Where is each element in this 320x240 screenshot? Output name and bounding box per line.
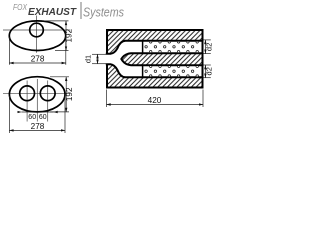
front view B: right hole (40, 86, 55, 101)
front view B: centerline vertical left pipe (26, 81, 28, 122)
dimension 278 (view A) extension lines (8, 37, 10, 65)
front view B: oval shell 278x192 (9, 77, 65, 112)
front view B: centerline vertical middle (36, 79, 38, 122)
svg-text:Systems: Systems (83, 4, 124, 19)
svg-text:278: 278 (31, 122, 45, 131)
svg-text:192: 192 (65, 87, 74, 101)
svg-text:420: 420 (148, 96, 162, 105)
dimension 192 (view A) extension lines (42, 20, 69, 22)
side view: Y-pipe white bore fill (106, 41, 202, 78)
dimension 192 (view B) line (65, 77, 67, 112)
weld seam upper tube (142, 40, 144, 54)
dimension d1 line (97, 54, 99, 63)
svg-text:60: 60 (39, 114, 47, 121)
dimension d1 extension lines (92, 53, 107, 55)
svg-text:d2: d2 (205, 67, 214, 75)
side view: body filled with damping material hatch (107, 30, 203, 88)
dimension 60 60 (view B) line (22, 111, 54, 113)
dimension d2 lower line (204, 65, 206, 78)
dimension 278 (view B) extension lines (8, 96, 10, 133)
dimension d2 upper extension lines (204, 39, 211, 41)
front view B: centerline horizontal (3, 92, 71, 94)
dimension 192 (view A) line (65, 21, 67, 51)
front view A: oval shell 278x192 (9, 21, 65, 51)
front view A: centerline horizontal (3, 29, 70, 31)
front view B: left hole (20, 86, 35, 101)
svg-text:60: 60 (28, 114, 36, 121)
dimension 420 extension lines (106, 90, 108, 108)
front view A: inlet hole d1 (30, 23, 44, 37)
dimension 278 (view A) line (9, 62, 65, 64)
weld seam lower tube (142, 64, 144, 78)
svg-text:278: 278 (31, 55, 45, 64)
dimension 192 (view B) extension lines (50, 76, 69, 78)
perforation dots upper tube (145, 41, 198, 53)
dimension d2 upper line (204, 40, 206, 54)
front view B: centerline vertical right pipe (47, 81, 49, 122)
title separator bar (80, 2, 82, 19)
side view: Y-pipe outline (106, 41, 202, 78)
perforation dots lower tube (145, 65, 198, 77)
dimension 420 line (107, 104, 204, 106)
dimension d2 lower extension lines (204, 64, 211, 66)
svg-text:192: 192 (65, 28, 74, 42)
svg-text:d1: d1 (84, 55, 93, 63)
svg-text:d2: d2 (205, 43, 214, 51)
dimension 278 (view B) line (9, 129, 65, 131)
front view A: centerline vertical (35, 16, 37, 53)
svg-text:EXHAUST: EXHAUST (28, 7, 77, 18)
svg-text:FOX: FOX (13, 3, 27, 12)
